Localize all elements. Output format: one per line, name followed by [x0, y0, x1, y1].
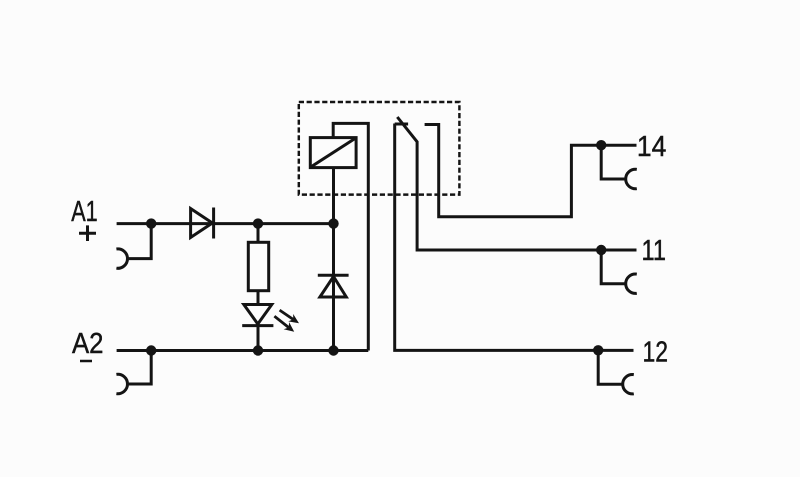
diode D2 freewheel: [318, 275, 349, 297]
relay coil K1: [310, 138, 356, 168]
wire 11 clamp stub: [601, 250, 625, 284]
node 12: [593, 345, 603, 355]
wire switch common / 12 row: [395, 124, 634, 351]
svg-text:11: 11: [642, 235, 667, 267]
switch NO contact / wire to 14: [425, 125, 637, 217]
wire coil bottom vertical: [332, 168, 335, 351]
relay outline dashed box: [299, 102, 460, 195]
wire resistor to LED: [257, 291, 260, 305]
diode D1: [191, 208, 214, 239]
wire 12 clamp stub: [598, 350, 622, 384]
clamp A1: [116, 249, 127, 268]
wire A2 clamp stub: [128, 351, 152, 385]
switch fixed tick: [395, 123, 408, 126]
clamp 12: [623, 375, 634, 394]
wire A1 clamp stub: [128, 224, 152, 259]
clamp 14: [626, 169, 637, 188]
clamp 11: [626, 274, 637, 293]
node A2-led: [253, 345, 263, 355]
node 11: [596, 245, 606, 255]
wire coil top to A2 net: [333, 123, 368, 350]
svg-text:12: 12: [643, 337, 669, 369]
node A2-diode: [328, 345, 338, 355]
svg-text:A2: A2: [72, 328, 104, 360]
wire A2 row: [117, 349, 369, 352]
wire A1 row: [117, 222, 334, 225]
LED arrow 2: [274, 316, 288, 327]
plus sign: [79, 225, 96, 241]
node A1-clamp: [146, 218, 156, 228]
minus sign: [80, 360, 92, 363]
coil diagonal: [312, 139, 356, 167]
node A1-resistor: [253, 218, 263, 228]
node A1-coil: [328, 218, 338, 228]
LED D3: [242, 305, 273, 326]
wire resistor branch top: [257, 224, 260, 243]
wire 14 clamp stub: [601, 145, 625, 179]
resistor R1: [248, 242, 268, 290]
svg-text:14: 14: [637, 131, 667, 163]
clamp A2: [116, 374, 127, 393]
node A2-clamp: [146, 345, 156, 355]
wire LED to A2: [257, 326, 260, 351]
svg-text:A1: A1: [71, 196, 98, 228]
switch blade / wire to 11: [397, 117, 636, 250]
node 14: [596, 140, 606, 150]
LED arrow 1: [280, 310, 294, 319]
